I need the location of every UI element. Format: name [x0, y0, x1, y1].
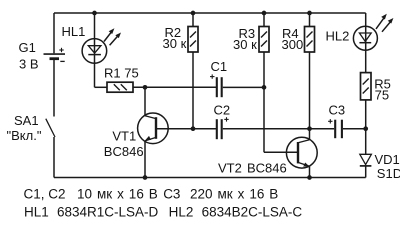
node dot R3 top	[262, 11, 267, 16]
switch SA1 lever	[46, 119, 55, 137]
svg-text:30 к: 30 к	[233, 37, 257, 52]
node dot R4 top	[307, 11, 312, 16]
LED HL2 triangle	[359, 33, 371, 42]
svg-text:C2: C2	[214, 103, 231, 118]
node dot HL1 top	[92, 11, 97, 16]
resistor R2 power marks	[190, 32, 196, 38]
resistor R2 bottom lead	[192, 52, 194, 129]
svg-text:10 мк x 16 В: 10 мк x 16 В	[77, 187, 158, 202]
transistor VT2 base bar	[297, 142, 299, 163]
resistor R4 bottom lead	[309, 52, 311, 129]
transistor VT2 collector lead	[309, 129, 311, 140]
node dot VT1 emitter on bus	[143, 175, 148, 180]
capacitor C3 plates	[334, 120, 336, 139]
svg-text:VD1: VD1	[375, 152, 400, 167]
LED HL2 cathode bar	[359, 42, 371, 44]
wire top bus	[54, 12, 366, 14]
svg-text:HL2: HL2	[169, 204, 194, 219]
capacitor C1 plates	[216, 77, 218, 97]
transistor VT1 collector diagonal	[145, 116, 156, 119]
node dot R2 base line	[191, 126, 196, 131]
wire R1 to C1 (collector line VT1)	[133, 86, 216, 88]
capacitor C2 plates	[216, 119, 218, 139]
wire left vertical (battery branch)	[53, 13, 55, 53]
wire HL1 to R1	[95, 86, 108, 88]
wire VT2 emitter to bus	[309, 166, 311, 177]
svg-text:220 мк x 16 В: 220 мк x 16 В	[190, 187, 278, 202]
svg-text:VT1: VT1	[112, 128, 136, 143]
svg-text:R1 75: R1 75	[104, 66, 139, 81]
diode VD1 bottom lead	[365, 166, 367, 178]
wire collector drop VT1	[144, 87, 146, 116]
resistor R5 body	[361, 73, 372, 100]
transistor VT1 emitter diagonal	[145, 137, 156, 141]
svg-text:HL1: HL1	[24, 204, 49, 219]
svg-text:C1, C2: C1, C2	[24, 187, 66, 202]
wire C2 right to C3 left	[223, 128, 334, 130]
resistor R3 power marks	[261, 32, 267, 38]
wire VT2 base horizontal	[264, 151, 297, 153]
node dot C3 / R5 / VD1	[363, 126, 368, 131]
wire VT2 base drop	[263, 87, 265, 152]
svg-text:S1D: S1D	[377, 166, 400, 181]
svg-text:BC846: BC846	[247, 160, 287, 175]
wire right branch top (HL2)	[365, 13, 367, 73]
svg-text:6834B2C-LSA-C: 6834B2C-LSA-C	[202, 204, 303, 219]
resistor R2 top lead	[192, 13, 194, 27]
capacitor C3 plus sign	[328, 120, 332, 122]
resistor R4 power marks	[307, 32, 313, 38]
transistor VT2 circle	[286, 137, 317, 168]
transistor VT2 emitter arrow	[303, 163, 309, 167]
LED HL1 triangle	[88, 46, 101, 53]
diode VD1 top lead	[365, 129, 367, 155]
LED HL1 light arrow 1	[104, 31, 112, 42]
LED HL1 circle	[82, 39, 107, 64]
svg-text:"Вкл.": "Вкл."	[7, 128, 42, 143]
node dot R4 bottom / VT2 collector	[307, 126, 312, 131]
svg-text:75: 75	[375, 87, 389, 102]
transistor VT1 base bar	[155, 117, 157, 139]
capacitor C1 plus sign	[210, 76, 215, 78]
capacitor C2 plus sign	[224, 118, 228, 120]
transistor VT1 emitter arrow	[145, 136, 151, 140]
svg-text:C3: C3	[163, 187, 180, 202]
resistor R5 power marks	[363, 79, 369, 85]
node dot VT2 emitter on bus	[307, 175, 312, 180]
battery G1 plates	[44, 53, 66, 55]
wire battery to switch	[53, 59, 55, 117]
svg-text:HL2: HL2	[326, 29, 350, 44]
LED HL2 light arrow 1	[376, 17, 385, 29]
resistor R4 top lead	[309, 13, 311, 27]
wire switch to bottom bus	[53, 137, 55, 178]
svg-text:30 к: 30 к	[163, 36, 187, 51]
svg-text:300: 300	[282, 37, 304, 52]
svg-text:SA1: SA1	[14, 113, 39, 128]
svg-text:6834R1C-LSA-D: 6834R1C-LSA-D	[57, 204, 159, 219]
resistor R3 top lead	[263, 13, 265, 27]
transistor VT2 emitter diagonal	[298, 162, 310, 166]
resistor R3 bottom lead	[263, 52, 265, 87]
resistor R2 body	[188, 27, 198, 53]
resistor R3 body	[259, 27, 269, 53]
LED HL1 light arrow 2	[110, 35, 119, 45]
transistor VT2 collector diagonal	[298, 140, 310, 143]
battery G1 plus sign	[59, 49, 63, 51]
base line VT1 left segment	[157, 128, 216, 130]
node dot C1 right / R3 / VT2 base	[262, 85, 267, 90]
LED HL1 lead vertical	[94, 13, 96, 87]
resistor R4 body	[305, 27, 315, 53]
LED HL2 circle	[353, 26, 377, 50]
LED HL2 light arrow 2	[382, 21, 391, 32]
svg-text:C3: C3	[329, 102, 346, 117]
svg-text:3 В: 3 В	[19, 57, 39, 72]
wire VT1 emitter to bus	[144, 141, 146, 178]
wire C3 right to node	[343, 128, 366, 130]
resistor R1 power marks	[114, 84, 120, 90]
node dot R2 top	[191, 11, 196, 16]
svg-text:BC846: BC846	[104, 144, 144, 159]
svg-text:HL1: HL1	[62, 24, 86, 39]
transistor VT1 circle	[138, 113, 169, 144]
resistor R1 body	[107, 82, 133, 92]
svg-text:VT2: VT2	[218, 160, 242, 175]
battery G1 minus sign	[60, 60, 64, 62]
svg-text:G1: G1	[19, 40, 36, 55]
resistor R5 bottom lead	[365, 100, 367, 129]
svg-text:C1: C1	[211, 59, 228, 74]
node dot VT1 collector	[143, 85, 148, 90]
diode VD1 triangle	[360, 154, 372, 164]
diode VD1 cathode bar	[360, 165, 372, 167]
LED HL1 cathode bar	[88, 54, 101, 56]
wire C1 right to node	[223, 86, 264, 88]
wire bottom bus	[54, 177, 366, 179]
